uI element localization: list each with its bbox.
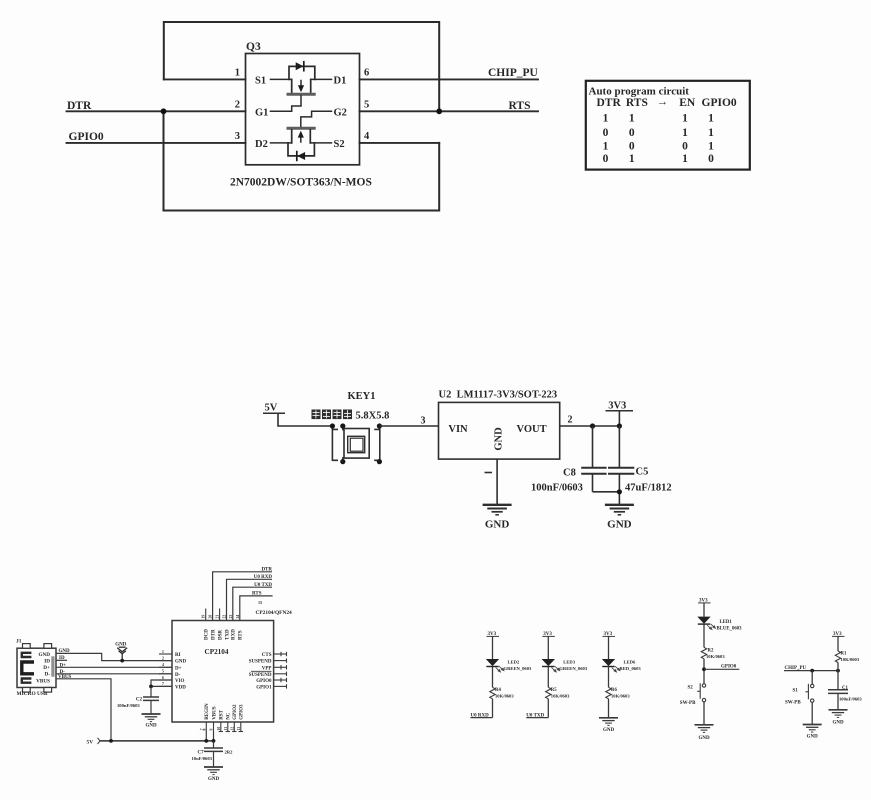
wire U0 TXD net <box>233 587 272 620</box>
svg-text:C8: C8 <box>563 468 576 479</box>
svg-text:G2: G2 <box>334 107 347 118</box>
ground under S1 <box>803 725 822 733</box>
ground under C7 <box>204 767 223 775</box>
svg-text:VOUT: VOUT <box>517 424 547 435</box>
svg-text:GPIO3: GPIO3 <box>240 704 245 720</box>
svg-text:1: 1 <box>629 153 635 165</box>
svg-text:BLUE_0603: BLUE_0603 <box>717 627 743 632</box>
svg-text:10K/0603: 10K/0603 <box>841 657 860 662</box>
svg-text:12: 12 <box>230 727 234 731</box>
svg-text:D-: D- <box>45 671 51 677</box>
pin 1 dash <box>485 472 493 474</box>
connector J1 micro-usb body <box>17 648 56 687</box>
svg-text:20: 20 <box>209 615 213 619</box>
svg-text:3: 3 <box>421 416 426 427</box>
svg-text:1: 1 <box>708 113 714 125</box>
wire <box>703 702 705 725</box>
left pin numbers <box>162 650 164 686</box>
svg-text:2: 2 <box>235 100 240 111</box>
svg-text:5V: 5V <box>265 403 278 414</box>
switch S1 <box>805 684 814 703</box>
switch KEY1 left bracket <box>332 429 338 460</box>
svg-text:GREEN_0603: GREEN_0603 <box>559 666 588 671</box>
svg-text:0: 0 <box>708 153 714 165</box>
node S1 branch <box>810 669 814 673</box>
svg-text:U0 TXD: U0 TXD <box>526 714 544 719</box>
svg-text:5.8X5.8: 5.8X5.8 <box>356 411 390 422</box>
svg-text:1: 1 <box>682 153 688 165</box>
LED LED6 <box>602 659 620 672</box>
svg-text:100nF/0603: 100nF/0603 <box>839 696 862 701</box>
svg-text:1: 1 <box>629 113 635 125</box>
svg-text:EN: EN <box>679 97 696 109</box>
svg-text:1: 1 <box>682 127 688 139</box>
node C8-C5 <box>617 489 622 494</box>
svg-text:2N7002DW/SOT363/N-MOS: 2N7002DW/SOT363/N-MOS <box>230 177 372 189</box>
svg-text:GND: GND <box>807 735 819 740</box>
wire <box>703 603 705 617</box>
svg-text:LED1: LED1 <box>720 620 733 625</box>
svg-text:GND: GND <box>832 720 844 725</box>
svg-text:0: 0 <box>629 127 635 139</box>
table frame <box>586 81 750 170</box>
svg-text:0: 0 <box>629 140 635 152</box>
node RTS junction <box>436 108 442 114</box>
capacitor C7 <box>213 741 215 748</box>
switch KEY1 right bracket <box>374 429 380 460</box>
svg-text:1: 1 <box>708 127 714 139</box>
wire KEY1 to U2 VIN <box>379 425 438 427</box>
svg-text:GND: GND <box>603 728 615 733</box>
svg-text:TXD: TXD <box>225 629 230 640</box>
svg-text:1: 1 <box>235 68 240 79</box>
svg-text:SUSPEND: SUSPEND <box>249 673 272 678</box>
mosfet Q3b lower: G2 step <box>301 111 332 127</box>
svg-text:GND: GND <box>607 519 632 531</box>
svg-text:D1: D1 <box>334 76 347 87</box>
op-amp U1 CP2104 box <box>172 621 274 723</box>
wire pin6 D1 to CHIP_PU <box>360 78 539 80</box>
mosfet Q3b D2 stub <box>271 142 292 144</box>
wire <box>492 699 494 718</box>
svg-text:10K/0603: 10K/0603 <box>611 694 630 699</box>
diode D of Q3b <box>297 152 305 160</box>
mosfet Q3b channel taps <box>291 130 293 143</box>
table row 1 <box>603 113 715 165</box>
wire GPIO0 to pin3 D2 <box>67 142 246 144</box>
svg-text:VPP: VPP <box>262 666 272 671</box>
op-amp U2 LM1117 box <box>439 402 560 459</box>
svg-text:0: 0 <box>603 127 609 139</box>
ground under C2 <box>142 714 161 722</box>
svg-text:VBUS: VBUS <box>212 706 217 720</box>
svg-text:Auto program circuit: Auto program circuit <box>589 86 690 98</box>
svg-text:RTS: RTS <box>626 97 648 109</box>
svg-text:100nF/0603: 100nF/0603 <box>117 703 140 708</box>
node VDD junction <box>149 685 153 689</box>
svg-text:8: 8 <box>202 729 206 731</box>
svg-text:D-: D- <box>175 673 181 678</box>
wire <box>547 667 549 688</box>
svg-text:DTR: DTR <box>211 629 216 640</box>
wire bottom loop DTR to S2 <box>164 111 440 210</box>
net label U0 TXD <box>526 717 548 719</box>
svg-text:GPIO0: GPIO0 <box>69 131 104 143</box>
transistor Q3 box <box>246 54 360 165</box>
mosfet Q3a upper: D1 stub <box>311 78 332 80</box>
wire U2 GND pin down <box>496 459 498 504</box>
svg-text:RTS: RTS <box>252 592 262 597</box>
svg-text:MICRO USB: MICRO USB <box>17 691 48 697</box>
svg-text:11: 11 <box>224 727 228 731</box>
svg-text:D+: D+ <box>43 665 50 671</box>
value label CJK self-lock button 5.8X5.8 <box>312 410 353 420</box>
bottom pin numbers rotated <box>202 727 241 731</box>
LED LED2 <box>486 659 504 672</box>
node GPIO0 junction <box>702 667 706 671</box>
svg-text:C5: C5 <box>636 467 649 478</box>
capacitor C8 <box>592 426 594 468</box>
bottom pin labels rotated <box>205 703 245 720</box>
resistor R2 <box>701 647 706 659</box>
svg-text:5: 5 <box>364 100 369 111</box>
connector J1 pin labels <box>36 652 50 684</box>
wire CHIP_PU <box>784 670 838 672</box>
mosfet Q3b gate bar <box>288 127 314 130</box>
svg-text:LED6: LED6 <box>624 659 636 664</box>
svg-text:NC: NC <box>227 712 232 720</box>
net label U0 RXD <box>471 717 493 719</box>
svg-text:GND: GND <box>208 777 220 782</box>
svg-text:→: → <box>657 96 669 108</box>
svg-text:GND: GND <box>485 519 510 531</box>
mosfet Q3a channel taps <box>291 79 293 92</box>
capacitor C2 <box>150 686 152 697</box>
wire <box>547 636 549 659</box>
mosfet Q3b body-diode loop <box>288 143 314 156</box>
mosfet Q3b arrow <box>298 131 304 138</box>
top pin labels rotated <box>205 629 244 640</box>
mosfet Q3a body-diode loop <box>289 66 315 79</box>
wire <box>492 667 494 688</box>
diode D of Q3a <box>296 62 304 70</box>
net label GPIO0 <box>704 668 739 670</box>
svg-text:U0 TXD: U0 TXD <box>254 583 272 588</box>
wire VIO-VDD tie <box>151 680 172 686</box>
svg-text:RST: RST <box>220 709 225 719</box>
svg-text:RTS: RTS <box>239 630 244 640</box>
svg-text:2: 2 <box>568 415 573 426</box>
svg-text:DTR: DTR <box>597 97 622 109</box>
svg-text:19: 19 <box>202 615 206 619</box>
wire RTS net <box>240 596 273 621</box>
svg-text:5: 5 <box>162 670 164 674</box>
svg-text:CP2104/QFN24: CP2104/QFN24 <box>256 610 293 616</box>
svg-text:1: 1 <box>603 140 609 152</box>
resistor R5 <box>546 687 551 699</box>
node R1/C1 branch <box>836 669 840 673</box>
wire REGIN drop <box>205 732 207 741</box>
svg-text:SW-PB: SW-PB <box>680 701 696 706</box>
ground under U2 <box>483 505 512 515</box>
svg-text:4: 4 <box>364 131 370 142</box>
svg-text:S1: S1 <box>255 76 266 87</box>
svg-text:24: 24 <box>236 615 240 619</box>
wire top loop RTS to S1 <box>164 22 439 111</box>
svg-text:0: 0 <box>682 140 688 152</box>
svg-text:13: 13 <box>237 727 241 731</box>
svg-text:5V: 5V <box>87 739 94 745</box>
ground under C1 <box>829 710 848 718</box>
wire pin4 S2 <box>360 142 440 144</box>
svg-text:VIN: VIN <box>448 424 468 435</box>
svg-text:DSR: DSR <box>218 630 223 640</box>
wire VOUT to 3V3 <box>560 425 620 427</box>
svg-text:15: 15 <box>258 600 262 605</box>
svg-text:R6: R6 <box>611 688 617 693</box>
top pin stubs DCD DSR <box>205 609 207 621</box>
svg-text:3: 3 <box>235 131 240 142</box>
svg-text:1: 1 <box>603 113 609 125</box>
bottom pin stubs <box>206 722 243 732</box>
wire 5V rail <box>100 740 214 742</box>
svg-text:23: 23 <box>229 615 233 619</box>
svg-text:2: 2 <box>162 656 164 660</box>
wire pin1 S1 <box>164 78 246 80</box>
ground under C5 <box>605 505 634 515</box>
svg-text:U0 RXD: U0 RXD <box>471 714 490 719</box>
svg-text:1: 1 <box>708 140 714 152</box>
svg-text:CP2104: CP2104 <box>205 648 229 656</box>
wire <box>547 699 549 718</box>
switch KEY1 terminal nodes <box>330 423 335 428</box>
svg-text:GPIO0: GPIO0 <box>721 664 737 669</box>
wire <box>703 659 705 684</box>
svg-text:U2 LM1117-3V3/SOT-223: U2 LM1117-3V3/SOT-223 <box>439 390 558 401</box>
wire DTR to pin2 G1 <box>67 110 246 112</box>
node DTR junction <box>161 108 167 114</box>
svg-text:VBUS: VBUS <box>36 678 50 684</box>
wire gate G1 step <box>271 96 302 112</box>
wire pin5 G2 to RTS <box>360 110 539 112</box>
svg-text:CTS: CTS <box>262 653 272 658</box>
wire <box>811 702 813 724</box>
svg-text:SUSPEND: SUSPEND <box>249 660 272 665</box>
svg-text:GPIO0: GPIO0 <box>256 679 272 684</box>
node VBUS-5V <box>109 739 113 743</box>
svg-text:R1: R1 <box>841 652 847 657</box>
svg-text:10uF/0603: 10uF/0603 <box>192 756 213 761</box>
resistor R6 <box>606 687 611 699</box>
svg-text:G1: G1 <box>255 107 268 118</box>
svg-text:7: 7 <box>162 682 164 686</box>
svg-text:22: 22 <box>223 615 227 619</box>
svg-text:C7: C7 <box>198 751 205 756</box>
node GND junction <box>120 659 124 663</box>
wire <box>608 699 610 718</box>
left pin labels <box>175 653 187 690</box>
svg-text:1: 1 <box>682 113 688 125</box>
svg-text:GND: GND <box>38 652 50 658</box>
svg-text:KEY1: KEY1 <box>348 391 376 402</box>
svg-text:6: 6 <box>364 68 369 79</box>
wire U0 RXD net <box>227 579 273 620</box>
svg-text:J1: J1 <box>16 639 22 645</box>
right pin stubs with ticks <box>274 652 287 689</box>
ground column C <box>599 718 618 726</box>
wire VBUS pin drop <box>213 732 215 741</box>
svg-text:0: 0 <box>603 153 609 165</box>
svg-text:9: 9 <box>210 729 214 731</box>
wire DTR net <box>213 572 272 621</box>
svg-text:D2: D2 <box>255 139 268 150</box>
right pin labels <box>249 653 272 690</box>
node VOUT-C8 <box>590 423 595 428</box>
svg-text:47uF/1812: 47uF/1812 <box>625 483 672 494</box>
svg-text:4: 4 <box>162 663 164 667</box>
svg-text:DTR: DTR <box>261 567 272 572</box>
capacitor C5 <box>618 426 620 468</box>
svg-text:REGIN: REGIN <box>205 703 210 720</box>
svg-text:GND: GND <box>175 660 187 665</box>
LED LED3 <box>542 659 560 672</box>
svg-text:DCD: DCD <box>205 629 210 640</box>
svg-text:LED2: LED2 <box>508 659 520 664</box>
svg-text:GPIO2: GPIO2 <box>233 704 238 720</box>
svg-text:C1: C1 <box>842 686 848 691</box>
wire 5V down <box>278 413 332 426</box>
wire <box>608 667 610 688</box>
resistor R1 <box>835 651 840 663</box>
wire <box>492 636 494 659</box>
svg-text:R4: R4 <box>495 688 501 693</box>
svg-text:RXD: RXD <box>232 629 237 640</box>
mosfet Q3a arrow <box>298 85 304 92</box>
svg-text:R5: R5 <box>551 688 557 693</box>
wire <box>703 625 705 648</box>
wire 3V3 down <box>618 411 620 426</box>
mosfet Q3a gate bar <box>288 93 314 96</box>
wire <box>837 636 839 651</box>
mosfet Q3a upper: S1 stub <box>271 78 292 80</box>
svg-text:U0 RXD: U0 RXD <box>254 575 273 580</box>
svg-text:10K/0603: 10K/0603 <box>551 694 570 699</box>
svg-text:RED_0603: RED_0603 <box>620 666 642 671</box>
svg-text:GPIO0: GPIO0 <box>702 97 737 109</box>
connector J1 shell glyphs <box>22 653 32 657</box>
svg-text:1: 1 <box>162 650 164 654</box>
svg-text:RTS: RTS <box>509 100 531 112</box>
top pin numbers rotated <box>202 615 240 619</box>
svg-text:3V3: 3V3 <box>608 401 626 412</box>
svg-text:DTR: DTR <box>67 100 92 112</box>
svg-text:10K/0603: 10K/0603 <box>706 654 725 659</box>
svg-text:S2: S2 <box>334 139 345 150</box>
ground under S2 <box>695 725 714 733</box>
svg-text:Q3: Q3 <box>246 41 261 53</box>
svg-text:S1: S1 <box>793 689 799 694</box>
svg-text:GPIO1: GPIO1 <box>256 685 272 690</box>
svg-text:GND: GND <box>698 736 710 741</box>
svg-text:LED3: LED3 <box>563 659 575 664</box>
svg-text:C2: C2 <box>136 697 143 702</box>
svg-text:CHIP_PU: CHIP_PU <box>488 67 539 79</box>
svg-text:GND: GND <box>145 724 157 729</box>
LED LED1 <box>697 617 715 630</box>
switch KEY1 body <box>344 429 369 459</box>
svg-text:VDD: VDD <box>175 685 186 690</box>
svg-text:VIO: VIO <box>175 679 185 684</box>
node VOUT-3V3 <box>617 423 622 428</box>
svg-text:GREEN_0603: GREEN_0603 <box>504 666 533 671</box>
resistor R4 <box>490 687 495 699</box>
svg-text:RI: RI <box>175 653 181 658</box>
svg-text:10: 10 <box>217 727 221 731</box>
svg-text:21: 21 <box>216 615 220 619</box>
svg-text:R2: R2 <box>708 648 714 653</box>
wire <box>608 636 610 659</box>
svg-text:D+: D+ <box>175 666 182 671</box>
svg-text:2R2: 2R2 <box>225 750 234 755</box>
svg-text:6: 6 <box>162 676 164 680</box>
left pin stubs <box>159 654 172 686</box>
svg-text:10K/0603: 10K/0603 <box>495 694 514 699</box>
svg-text:GND: GND <box>494 427 505 451</box>
capacitor C1 <box>837 671 839 690</box>
wire S1 drop <box>811 671 813 685</box>
mosfet Q3b S2 stub <box>310 142 331 144</box>
svg-text:S2: S2 <box>688 685 694 690</box>
svg-text:SW-PB: SW-PB <box>785 701 801 706</box>
svg-text:100nF/0603: 100nF/0603 <box>531 483 583 494</box>
svg-text:ID: ID <box>44 658 50 664</box>
wire <box>837 663 839 671</box>
switch S2 <box>697 683 706 702</box>
